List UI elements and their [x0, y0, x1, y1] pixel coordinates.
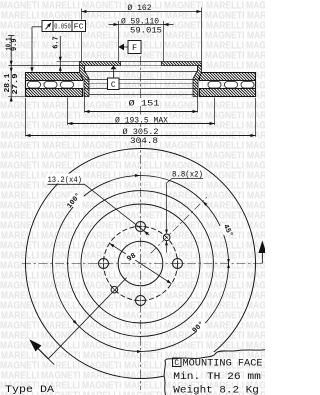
rotation arrow right [261, 250, 263, 264]
centerline vertical [140, 56, 142, 390]
svg-text:0.050: 0.050 [54, 24, 71, 32]
rotation direction arrow [38, 348, 49, 359]
dim Ø162 extension lines [81, 9, 83, 20]
datum C flag under hat [111, 66, 117, 70]
ext line hat top left [57, 61, 80, 63]
svg-text:Ø 151: Ø 151 [129, 98, 160, 108]
svg-text:FC: FC [74, 24, 84, 32]
section: hat top plate (hatched, with bore gap) [80, 62, 121, 66]
front view: outer circle Ø305 (clipped at note) [26, 149, 256, 379]
bolt holes Ø13.2 x4 [136, 222, 146, 232]
svg-text:6.7: 6.7 [52, 36, 60, 49]
section: far-side interior edges [85, 71, 198, 73]
note block wavy border [164, 350, 265, 395]
bolt hole tick marks [134, 226, 148, 228]
front view: friction inner circle Ø193.5 [68, 191, 214, 337]
front view: hat circle Ø162 [81, 204, 200, 323]
dim Ø193.5 MAX [67, 98, 69, 126]
arrowheads on r88 angle arcs [135, 174, 140, 177]
svg-text:F: F [132, 43, 137, 53]
small holes Ø8.8 x2 at 45/225 deg [163, 234, 170, 241]
perp tick on 225deg small hole [111, 286, 119, 294]
angle label 45deg [219, 222, 233, 236]
centerline horizontal [22, 263, 262, 265]
svg-text:27.9: 27.9 [12, 74, 20, 95]
svg-text:8.8(x2): 8.8(x2) [172, 169, 203, 179]
mounting face extension line [9, 65, 80, 67]
svg-text:9.9: 9.9 [11, 39, 19, 52]
svg-text:MOUNTING FACE: MOUNTING FACE [183, 358, 263, 369]
svg-text:Ø 162: Ø 162 [128, 3, 152, 13]
section: far rim edge seen through bore [121, 61, 162, 63]
front view: center bore Ø59 [118, 241, 163, 286]
section: vent channel vanes left [28, 82, 41, 89]
feature control frame: runout 0.050 FC [42, 21, 86, 32]
svg-text:C: C [111, 81, 116, 90]
section: vent channel vanes right [241, 82, 254, 89]
dim Ø162 line [82, 11, 202, 13]
svg-text:304.8: 304.8 [130, 136, 158, 146]
dim Ø98 diagonal [109, 243, 171, 283]
svg-text:Ø 193.5 MAX: Ø 193.5 MAX [115, 115, 168, 125]
front view: angle reference circle r88 [53, 176, 229, 352]
runout symbol [46, 24, 51, 30]
front view: bolt circle Ø98 (dashed) [104, 227, 178, 301]
svg-text:Min. TH 26 mm: Min. TH 26 mm [173, 371, 260, 383]
dim Ø305.2 / 304.8 [25, 98, 27, 137]
section: vent channel outlines [25, 73, 27, 97]
svg-text:Type DA: Type DA [5, 384, 55, 395]
label 13.2(x4) with leader [46, 174, 83, 184]
svg-text:59.015: 59.015 [130, 26, 162, 35]
section: right friction ring plates (hatched) [200, 73, 256, 81]
radial 45deg centerline [151, 197, 207, 253]
svg-text:Ø 59.110: Ø 59.110 [121, 17, 159, 27]
section: hat wall right (hatched) [193, 66, 202, 97]
svg-text:Weight 8.2 Kg: Weight 8.2 Kg [173, 385, 258, 395]
ext line ring bottom [8, 96, 26, 98]
dim Ø151 [84, 92, 86, 113]
svg-text:13.2(x4): 13.2(x4) [48, 175, 83, 185]
angle label 90deg [191, 317, 208, 334]
datum F flag [118, 44, 124, 51]
angle label 100deg [65, 189, 85, 209]
dim Ø59 extension lines (bore edges) [118, 21, 120, 62]
section: left friction ring plates (hatched) [26, 73, 83, 81]
radial 225deg line to rotation arrow [48, 278, 126, 359]
dim Ø59.110/59.015 [109, 24, 119, 26]
svg-text:28.1: 28.1 [4, 73, 12, 93]
note: C MOUNTING FACE [173, 358, 182, 367]
FCF leader [32, 26, 42, 28]
svg-text:C: C [174, 360, 179, 368]
section: hat wall left (hatched) [80, 66, 90, 97]
